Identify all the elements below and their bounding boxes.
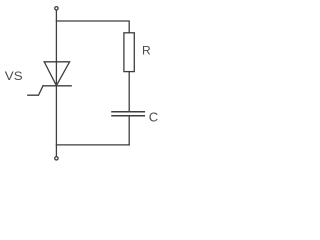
svg-text:R: R xyxy=(142,44,151,58)
terminal bottom xyxy=(55,157,58,160)
thyristor cathode bar xyxy=(43,85,71,87)
wire cathode vertical xyxy=(55,86,57,157)
wire bottom horizontal xyxy=(56,144,129,146)
wire anode vertical xyxy=(55,10,57,85)
svg-text:C: C xyxy=(149,110,158,125)
wire resistor to capacitor xyxy=(128,72,130,112)
capacitor C plates xyxy=(112,112,144,116)
resistor R xyxy=(124,33,134,72)
thyristor gate xyxy=(28,86,43,95)
svg-text:VS: VS xyxy=(5,71,23,83)
wire capacitor to bottom xyxy=(128,116,130,144)
wire top branch xyxy=(56,21,129,33)
terminal top xyxy=(55,7,58,10)
thyristor VS triangle xyxy=(44,62,69,86)
